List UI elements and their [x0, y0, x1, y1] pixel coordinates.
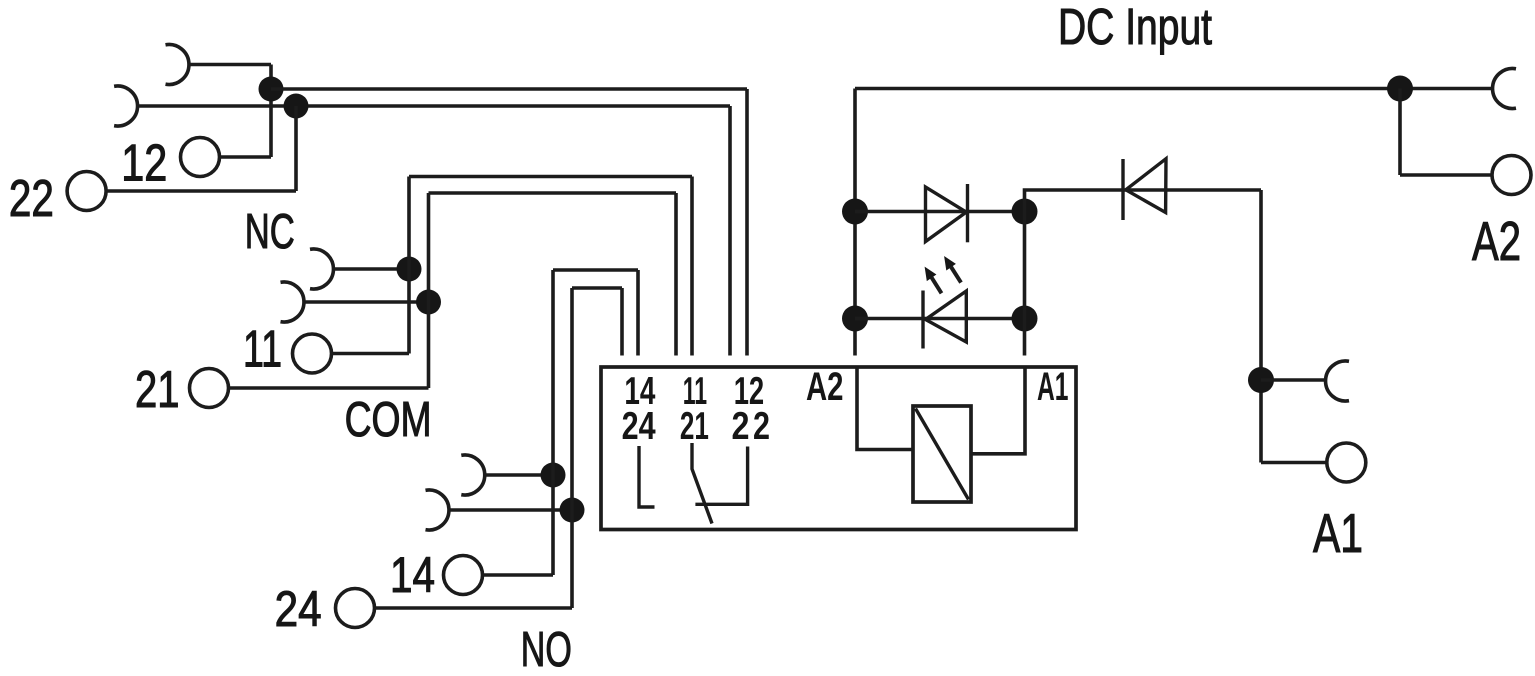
wire [1259, 190, 1263, 463]
LED cathode bar [921, 291, 924, 349]
wire [106, 189, 296, 193]
wire [294, 106, 298, 191]
svg-text:12: 12 [121, 135, 167, 193]
wire [690, 177, 694, 356]
svg-text:11: 11 [243, 321, 282, 379]
svg-text:NC: NC [245, 205, 295, 259]
wire [449, 508, 572, 512]
svg-text:2: 2 [732, 405, 750, 448]
wire [1400, 173, 1492, 177]
node junction [842, 306, 868, 332]
wire [332, 352, 410, 356]
socket contact arc (A2 plug) [1493, 69, 1516, 109]
contact lever symbol [692, 443, 712, 524]
wire [483, 573, 554, 577]
wire [745, 89, 749, 356]
svg-text:A2: A2 [806, 365, 844, 409]
wire [304, 300, 429, 304]
node junction [842, 199, 868, 225]
terminal circle 22 [67, 172, 106, 211]
wire [375, 606, 573, 610]
node junction [1387, 76, 1413, 102]
wire LED row [855, 317, 1025, 321]
wire to pin 12 [271, 87, 747, 91]
wire A2 drop [853, 89, 857, 356]
node junction [541, 463, 566, 488]
socket contact arc (pole2 NC plug, top-left) [166, 45, 189, 85]
wire [636, 270, 640, 356]
diode V3 [1126, 159, 1166, 213]
node junction [1012, 199, 1038, 225]
wire [570, 288, 574, 608]
wire diode row [855, 210, 1025, 214]
wire [220, 155, 272, 159]
wire [620, 288, 624, 356]
node junction [397, 257, 422, 282]
wire to pin 21 [429, 191, 677, 195]
wire DC bus top [855, 87, 1493, 91]
terminal circle 24 [336, 589, 375, 628]
svg-text:DC Input: DC Input [1058, 0, 1212, 55]
wire [1261, 461, 1327, 465]
svg-text:NO: NO [521, 623, 572, 676]
terminal circle 21 [190, 369, 229, 408]
contact NC symbol [695, 447, 747, 505]
terminal circle 11 [293, 334, 332, 373]
socket contact arc (pole1 COM plug) [281, 282, 304, 322]
svg-text:24: 24 [275, 581, 322, 637]
wire [674, 193, 678, 356]
socket contact arc (pole1 NC plug) [114, 86, 137, 126]
node junction [1012, 306, 1038, 332]
node junction [416, 290, 441, 315]
svg-text:22: 22 [9, 170, 54, 228]
socket contact arc (pole1 NO plug) [426, 490, 449, 530]
LED arrow [951, 267, 961, 283]
diode V1 cathode bar [966, 184, 969, 242]
terminal circle 12 [181, 138, 220, 177]
wire to pin 24 [572, 286, 622, 290]
svg-text:24: 24 [622, 405, 656, 448]
wire [728, 106, 732, 356]
svg-text:21: 21 [680, 405, 709, 448]
terminal circle A1 [1327, 443, 1366, 482]
wire to pin 14 [553, 268, 638, 272]
svg-text:A2: A2 [1472, 210, 1521, 272]
wire to pin 22 [138, 104, 730, 108]
diode V3 cathode bar [1121, 159, 1124, 220]
wire [334, 267, 410, 271]
wire A1 drop [1025, 190, 1262, 356]
wire to pin 11 [409, 175, 692, 179]
diode V1 [926, 187, 967, 242]
coil diagonal [916, 409, 969, 500]
contact NO symbol [639, 446, 655, 507]
socket contact arc (pole2 COM plug) [310, 249, 333, 289]
wire [427, 193, 431, 388]
wire A2 to coil [857, 367, 913, 450]
wire [189, 63, 271, 67]
wire [407, 177, 411, 354]
socket contact arc (pole2 NO plug) [461, 455, 484, 495]
node junction [259, 77, 284, 102]
wire [229, 386, 429, 390]
terminal circle 14 [444, 556, 483, 595]
wire [269, 65, 273, 158]
svg-text:14: 14 [390, 547, 435, 603]
LED arrowhead [944, 256, 956, 271]
relay module outline K1 [601, 367, 1076, 530]
svg-text:21: 21 [135, 361, 180, 419]
svg-text:COM: COM [345, 393, 432, 447]
node junction [560, 498, 585, 523]
terminal circle A2 [1492, 156, 1531, 195]
LED arrow [932, 278, 942, 294]
LED triangle [926, 291, 967, 342]
svg-text:A1: A1 [1037, 365, 1069, 409]
wire [485, 473, 553, 477]
wire coil to A1 [971, 367, 1025, 454]
LED arrowhead [925, 267, 937, 282]
relay coil K1 [913, 406, 971, 502]
node junction [284, 94, 309, 119]
socket contact arc (A1 plug) [1326, 361, 1349, 401]
wire [1398, 89, 1402, 176]
wire [551, 270, 555, 575]
svg-text:2: 2 [753, 405, 770, 448]
node junction [1248, 367, 1274, 393]
svg-text:A1: A1 [1313, 502, 1363, 564]
wire [1261, 378, 1326, 382]
